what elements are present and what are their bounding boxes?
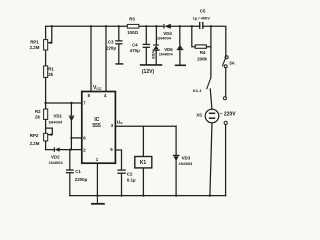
value label C2 [127,171,136,182]
wire pin 3 output Uo line [115,125,176,127]
value label C3 [106,40,116,51]
svg-text:1N4004: 1N4004 [159,51,174,56]
svg-text:7: 7 [83,100,86,105]
lamp socket XS [205,109,219,123]
wire R4 right vertical and K1-1 column [206,26,211,77]
svg-text:VD5: VD5 [151,51,156,60]
wire VD1 branch vertical [70,103,72,150]
svg-text:~ 220V: ~ 220V [220,111,237,117]
wire top rail left segment [46,25,128,27]
wire RP2 wiper loop [46,128,53,135]
svg-text:C3: C3 [108,40,114,45]
value label C5 [193,8,211,20]
svg-text:0.1μ: 0.1μ [127,178,136,183]
RP1 wiper arrowhead [48,41,51,44]
wire left column RP1 R1 R2 RP2 chain [45,26,47,149]
diode VD1 [69,116,74,121]
svg-text:2k: 2k [35,115,40,120]
svg-text:R4: R4 [200,50,206,55]
value label C1 [75,169,88,182]
value label R1 [48,67,54,77]
svg-text:555: 555 [92,123,101,129]
wire VD6 branch [179,26,181,65]
wire pin 1 to rail [96,163,98,195]
svg-text:R2: R2 [35,109,41,114]
diode VD4 [164,24,171,29]
socket plug upper circle [223,97,226,100]
capacitor C4 [143,44,150,47]
svg-text:1N4004: 1N4004 [178,161,193,166]
svg-text:2200μ: 2200μ [75,177,88,182]
IC label [92,117,101,129]
value label R4 [197,50,207,62]
wire bottom ground rail [70,195,226,197]
svg-text:C2: C2 [127,171,133,176]
ground symbol below rail [91,196,105,204]
svg-text:VCC: VCC [93,85,102,91]
socket plug lower circle [224,121,227,124]
wire VD3 branch [175,126,177,195]
svg-text:RP1: RP1 [30,40,39,45]
svg-text:1N4004: 1N4004 [48,119,63,124]
resistor R4 [195,45,206,48]
svg-text:(12V): (12V) [142,69,155,75]
value label VD2 [49,154,64,165]
relay contact K1-1 [207,78,211,90]
svg-text:C4: C4 [132,43,138,48]
potentiometer RP1 [44,40,48,50]
capacitor C5 [200,22,203,29]
value label R2 [35,109,41,120]
value label RP2 [30,133,40,146]
svg-text:470μ: 470μ [130,48,140,53]
svg-text:1μ / 400V: 1μ / 400V [193,16,211,21]
wire pin 6 line [71,137,81,139]
wire top rail right of VD4 [171,25,200,27]
wire K1 coil branch [142,126,144,195]
svg-text:R3: R3 [129,17,135,22]
resistor R1 [44,66,48,78]
ground bar under VD6 [175,64,186,66]
wire top rail middle segment [139,25,164,27]
svg-text:5: 5 [110,147,113,152]
wire RP1 wiper to rail [48,26,52,42]
resistor R2 [44,109,48,119]
svg-text:K1: K1 [140,160,147,166]
svg-text:C1: C1 [75,169,81,174]
svg-text:8: 8 [88,93,91,98]
svg-text:200k: 200k [197,56,207,61]
svg-text:1: 1 [96,157,99,162]
ground bar under C4 and VD5 [140,64,163,66]
wire K1-1 to lamp [210,89,212,109]
svg-text:1N4004: 1N4004 [157,36,172,41]
wire pin 5 to C2 [115,150,121,196]
svg-text:100Ω: 100Ω [127,30,138,35]
svg-text:VD1: VD1 [53,113,62,118]
wire top rail right end to corner [203,26,226,55]
wire SA column [225,68,227,196]
svg-text:XS: XS [196,112,202,117]
diode VD6 [177,45,184,50]
capacitor C1 [66,170,74,173]
wire C1 branch [69,150,71,196]
value label VD6 [159,47,174,56]
resistor R3 [127,24,139,28]
svg-text:1N4004: 1N4004 [49,160,64,165]
wire C3 branch [118,26,120,63]
wire Vcc pin4 [105,26,107,91]
svg-text:Uo: Uo [117,120,123,126]
svg-text:2: 2 [83,148,86,153]
wire pin 2 line [46,149,82,151]
zener diode VD5 [153,45,160,50]
svg-text:C5: C5 [200,8,206,13]
value label VD3 [178,155,193,166]
svg-text:RP2: RP2 [30,133,39,138]
RP2 wiper arrowhead [48,133,51,136]
capacitor C3 [115,41,122,44]
wire lamp bottom to ground rail [210,123,212,196]
IC U1 555 [82,92,116,164]
value label C4 [130,43,140,54]
value label VD4 [157,31,172,41]
value label R3 [127,17,138,35]
wire VD5 branch [155,26,157,64]
capacitor C2 [117,170,126,173]
potentiometer RP2 [44,133,48,141]
diode VD2 [54,147,59,152]
value label RP1 [30,40,40,51]
wire Vcc pin8 [90,26,92,91]
svg-text:2.2M: 2.2M [30,45,40,50]
svg-text:3A: 3A [229,60,235,65]
svg-text:VD3: VD3 [182,155,191,160]
wire C4 branch [145,26,147,64]
diode VD3 [173,155,180,161]
svg-text:3: 3 [111,123,114,128]
svg-text:K1-1: K1-1 [193,88,202,93]
svg-text:2k: 2k [48,72,53,77]
relay coil K1 [135,157,152,168]
wire R4 left vertical [192,26,195,46]
ground bar under C3 [115,63,123,65]
svg-text:220μ: 220μ [106,46,116,51]
svg-text:2.2M: 2.2M [30,141,40,146]
svg-text:VD2: VD2 [51,154,60,159]
svg-text:4: 4 [104,93,107,98]
svg-text:6: 6 [83,136,86,141]
wire pin 7 line [46,102,82,104]
switch SA [222,56,228,68]
value label VD1 [48,113,63,124]
